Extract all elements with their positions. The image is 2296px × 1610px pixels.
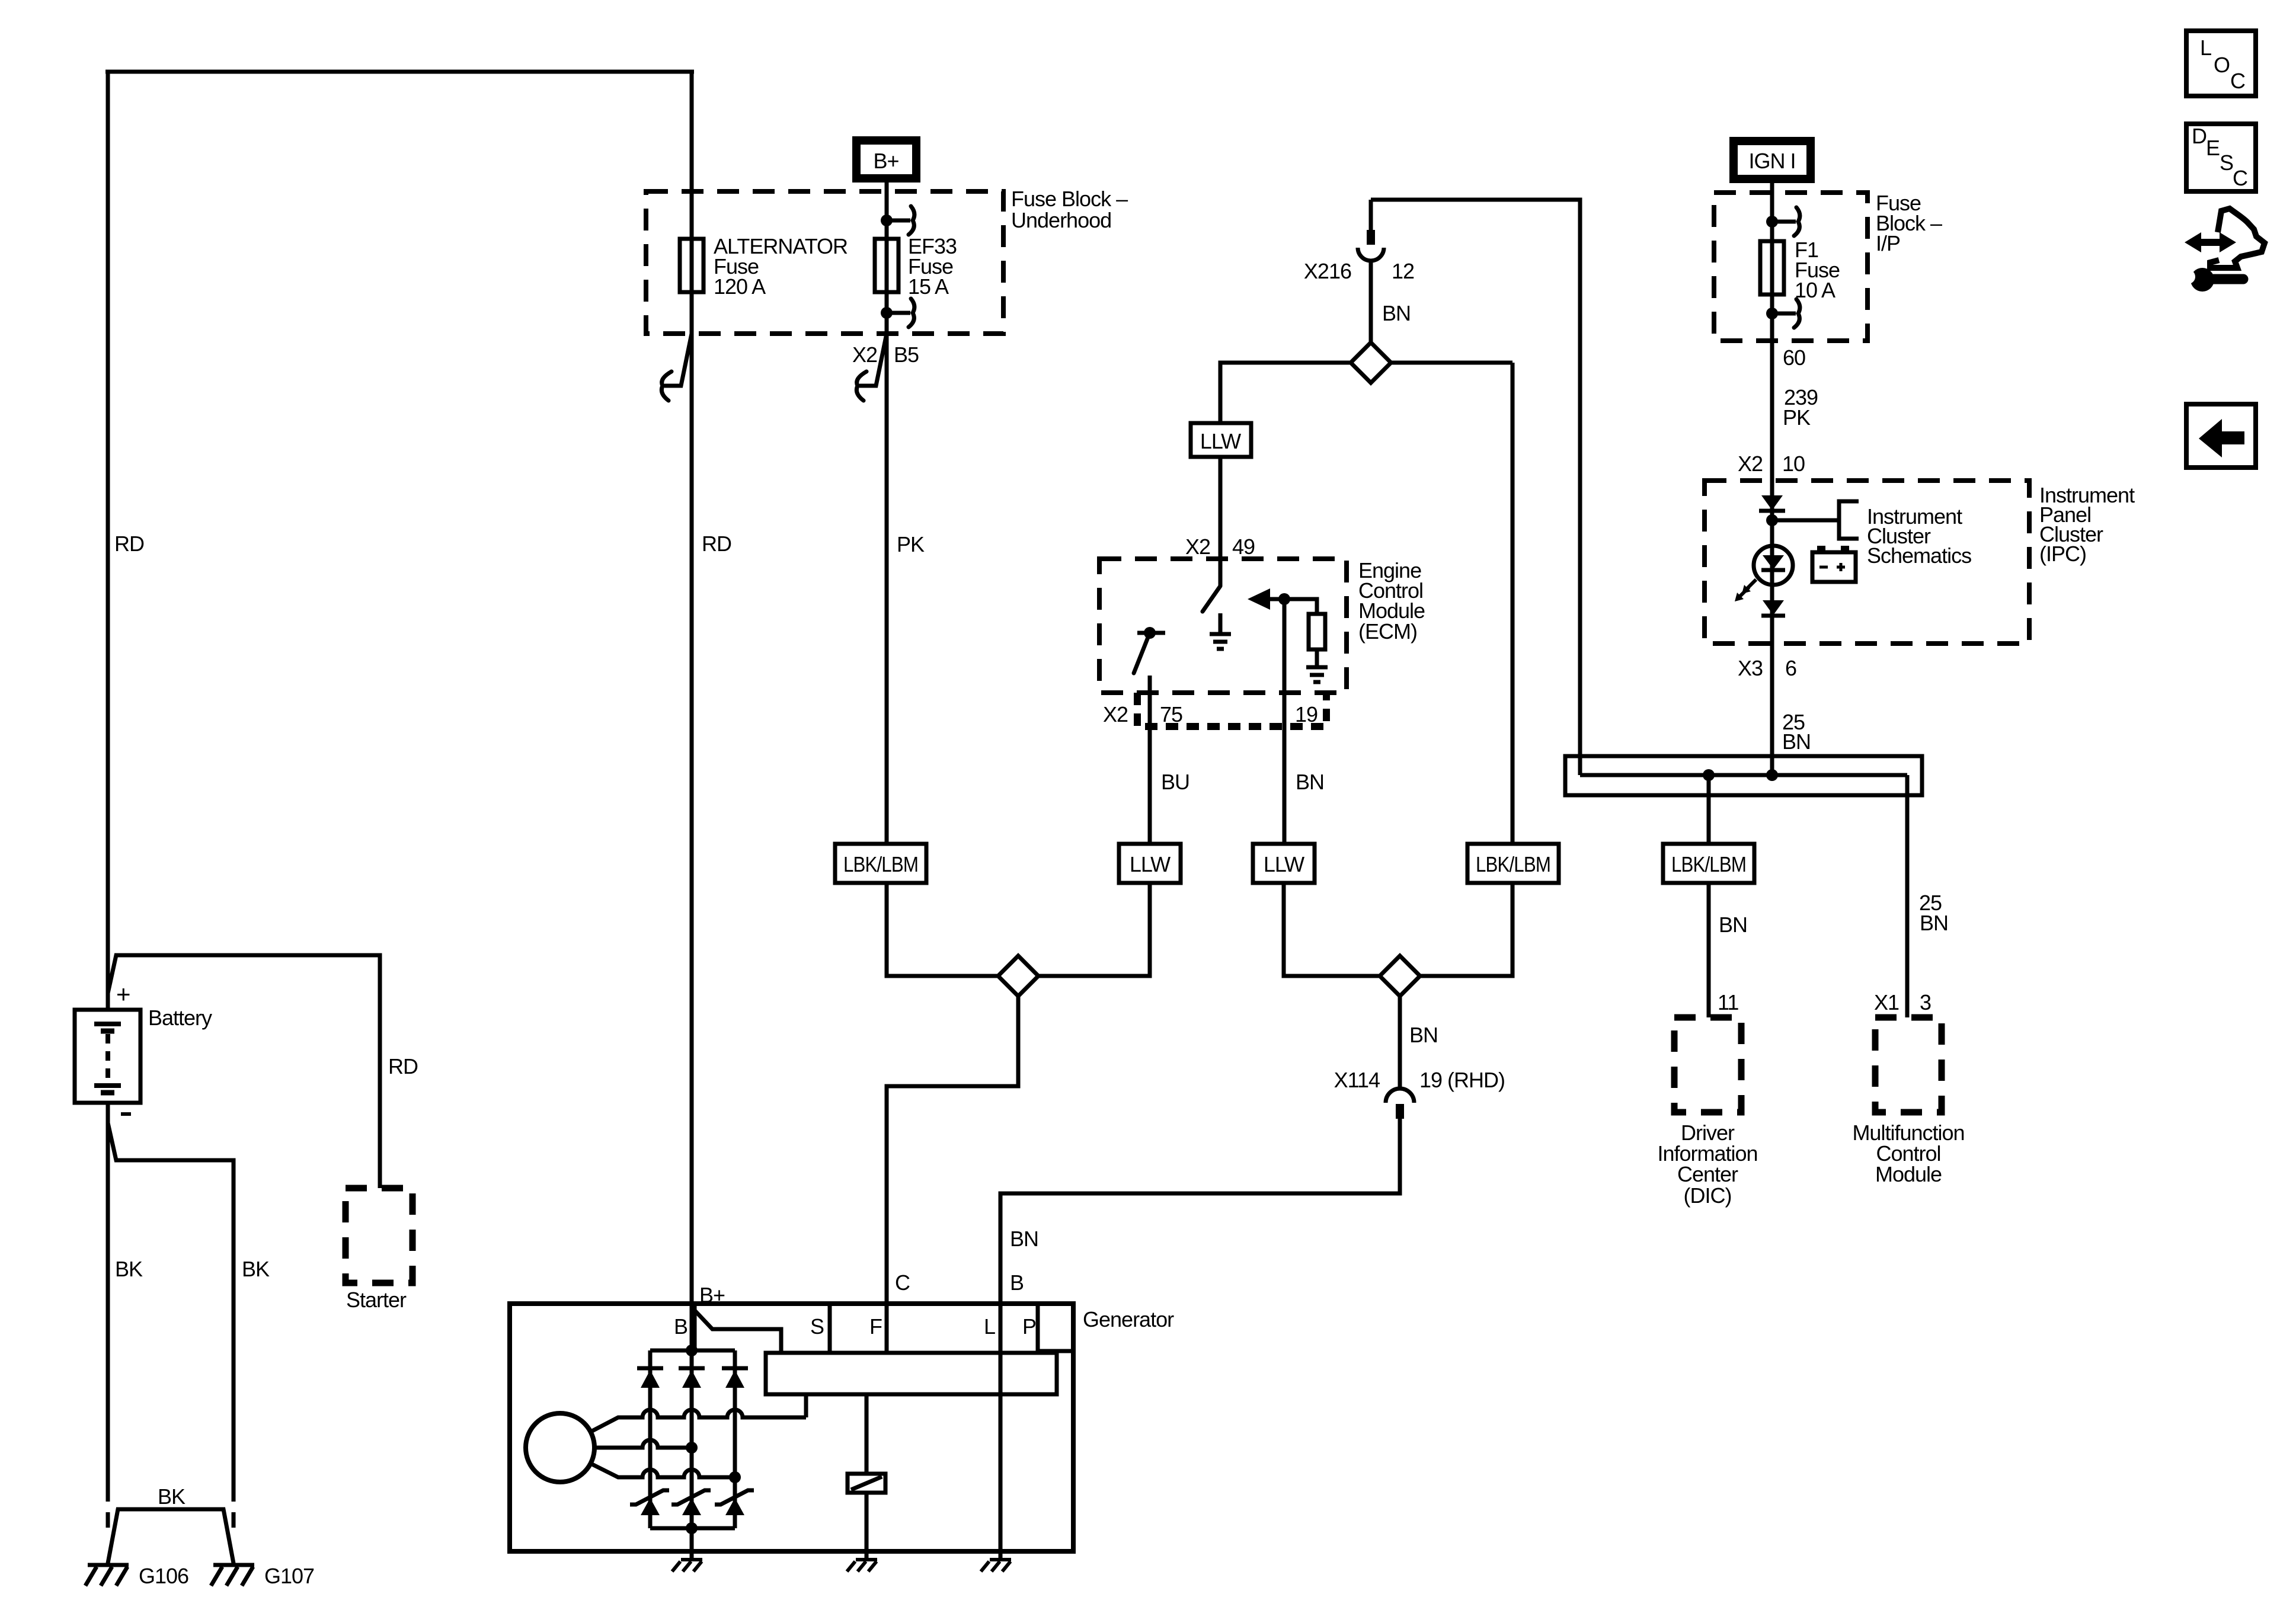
svg-text:LLW: LLW (1264, 852, 1304, 876)
icon back-arrow box (2186, 404, 2256, 468)
svg-text:Center: Center (1677, 1162, 1738, 1186)
svg-text:B+: B+ (699, 1283, 725, 1307)
wire ECM pin 19 down to LLW box (1283, 599, 1287, 844)
junction splice above EF33 fuse (881, 215, 893, 226)
zener diode Z1 (630, 1490, 669, 1505)
svg-text:Battery: Battery (148, 1006, 212, 1030)
svg-text:RD: RD (702, 532, 731, 556)
rectifier verticals (650, 1350, 735, 1528)
junction dot bus to DIC branch (1703, 769, 1715, 781)
field driver box with slash (848, 1474, 885, 1493)
svg-text:BK: BK (115, 1257, 143, 1281)
wire label box LBK/LBM (X216 branch) (1467, 844, 1559, 883)
svg-text:O: O (2214, 53, 2230, 77)
junction splice below EF33 fuse (881, 307, 893, 319)
svg-text:(DIC): (DIC) (1684, 1183, 1732, 1208)
terminal IGN I box (1734, 141, 1811, 179)
junction dot phase 3 to rectifier leg 3 (729, 1471, 741, 1483)
wire generator L terminal to ground (999, 1353, 1003, 1560)
indicator LED circle (charge lamp) (1754, 546, 1793, 585)
svg-text:BK: BK (242, 1257, 270, 1281)
ground (generator L circuit) (981, 1560, 1011, 1571)
fuse block I/P dashed box (1714, 193, 1868, 341)
wire tap to instrument cluster schematics (1772, 518, 1839, 523)
rectifier bottom bus (650, 1526, 735, 1531)
svg-text:B+: B+ (873, 149, 898, 173)
ground (generator regulator) (847, 1560, 877, 1571)
wire dashed continuation left BK (106, 1486, 110, 1532)
wire label box LLW (ECM 49 wire) (1191, 423, 1251, 457)
wire dashed continuation right BK (232, 1486, 236, 1532)
wire label box LLW (ECM 75 wire) (1119, 844, 1181, 883)
svg-text:C: C (2230, 69, 2245, 93)
svg-text:BN: BN (1920, 911, 1948, 935)
arrow into ECM (field control) (1248, 588, 1270, 610)
connector X114 female half (arc) (1386, 1089, 1414, 1103)
icon service (double arrow, part outline, wrench) (2181, 209, 2265, 292)
wire label box LBK/LBM (DIC branch) (1663, 844, 1754, 883)
svg-text:X3: X3 (1738, 656, 1763, 680)
switch blade (pin 49 ignition sense) (1203, 586, 1220, 612)
svg-text:15 A: 15 A (908, 274, 949, 299)
junction splice below F1 fuse (1766, 308, 1778, 319)
splice marker brace (below EF33) (887, 311, 910, 315)
wire IGN I through F1 fuse down to IPC and bus (1770, 179, 1774, 775)
wire generator B internal link to regulator (692, 1307, 781, 1353)
fuse block underhood dashed box (646, 191, 1003, 334)
resistor (ECM internal) (1309, 614, 1325, 649)
svg-text:3: 3 (1920, 990, 1931, 1014)
svg-text:49: 49 (1232, 534, 1255, 559)
icon LOC box (2186, 31, 2256, 96)
splice marker brace (above F1) (1772, 220, 1796, 224)
svg-text:Starter: Starter (346, 1288, 407, 1312)
zener diode Z2 (671, 1490, 711, 1505)
svg-text:(ECM): (ECM) (1358, 619, 1417, 644)
splice diamond S1 (998, 956, 1038, 996)
wire branch battery+ to starter (diagonal, horizontal, down) (108, 955, 380, 1188)
svg-text:BN: BN (1010, 1227, 1038, 1251)
wire X216 down to diamond S3 (1369, 261, 1373, 343)
wire BK jumper to grounds (trapezoid) (108, 1509, 234, 1563)
junction dot bus to IPC wire (1766, 769, 1778, 781)
svg-text:G107: G107 (264, 1564, 314, 1588)
svg-text:(IPC): (IPC) (2039, 542, 2086, 566)
splice pack internal bus (1580, 773, 1907, 777)
svg-text:60: 60 (1783, 345, 1805, 370)
switch blade (pin 75) (1134, 633, 1150, 673)
svg-text:BK: BK (158, 1484, 186, 1509)
starter dashed box (346, 1188, 412, 1283)
wire X114 to generator B terminal (1000, 1119, 1400, 1353)
battery plus plate lower (94, 1083, 121, 1088)
svg-text:LLW: LLW (1200, 429, 1241, 453)
wire stub from top loop down to X216 (1369, 200, 1373, 231)
battery minus plate lower (short thick) (101, 1090, 114, 1096)
junction dot rectifier bottom bus (686, 1522, 698, 1534)
rectifier diode D+2 (679, 1366, 705, 1371)
wire diamond S3 left arm to LLW box (1220, 363, 1351, 423)
generator terminal separators (695, 1304, 1073, 1353)
splice marker brace (above EF33) (887, 219, 910, 223)
svg-text:X2: X2 (1185, 534, 1210, 559)
svg-text:Underhood: Underhood (1011, 208, 1111, 232)
svg-text:BN: BN (1382, 301, 1411, 325)
svg-text:12: 12 (1392, 259, 1414, 283)
wire bus to LBK/LBM (DIC branch) (1707, 775, 1711, 844)
wire below diamond S2 to connector X114 (1398, 996, 1402, 1089)
terminal B+ box (856, 140, 916, 178)
svg-text:10: 10 (1782, 452, 1805, 476)
svg-text:6: 6 (1785, 656, 1796, 680)
wire top loop from X216 to bus bar (1371, 200, 1580, 775)
battery telltale icon (1812, 552, 1856, 582)
svg-text:Fuse Block –: Fuse Block – (1011, 187, 1128, 211)
svg-text:LBK/LBM: LBK/LBM (1476, 852, 1550, 876)
wire diamond S3 right arm to LBK/LBM drop (1391, 361, 1512, 365)
svg-text:G106: G106 (139, 1564, 188, 1588)
diode D2 (IPC output) (1763, 600, 1784, 615)
svg-text:P: P (1022, 1314, 1036, 1339)
junction dot rectifier top bus (686, 1345, 698, 1356)
svg-text:BN: BN (1719, 913, 1747, 937)
svg-text:PK: PK (897, 532, 925, 556)
svg-text:IGN I: IGN I (1748, 149, 1795, 173)
svg-text:B5: B5 (894, 343, 919, 367)
svg-text:I/P: I/P (1876, 231, 1900, 255)
svg-text:19: 19 (1295, 702, 1318, 726)
connector bracket (instrument cluster schematics) (1839, 501, 1859, 539)
ground (ECM internal, under switch) (1210, 613, 1231, 649)
svg-text:LLW: LLW (1130, 852, 1171, 876)
driver information center DIC dashed box (1674, 1017, 1741, 1112)
svg-text:10 A: 10 A (1795, 278, 1835, 302)
diode D1 (IPC input) (1761, 495, 1783, 510)
svg-text:X2: X2 (852, 343, 877, 367)
stator phase 2 line with hop (594, 1440, 692, 1448)
stator phase 3 line with hops (591, 1464, 735, 1477)
rectifier diode D+1 (637, 1366, 663, 1371)
svg-text:75: 75 (1160, 702, 1182, 726)
splice pack bus bar outline (1565, 756, 1922, 795)
ground (generator rectifier) (672, 1560, 702, 1571)
splice marker brace (below F1) (1772, 312, 1796, 316)
battery plus plate (94, 1022, 121, 1026)
wire branch battery- to second BK drop (108, 1123, 234, 1486)
ECM dashed box (1099, 559, 1347, 693)
wire PK from B+ terminal through EF33 fuse down to LBK/LBM (885, 178, 889, 844)
wire RD from top run down to generator B+ terminal (690, 72, 694, 1350)
junction dot on pin75 contact (1144, 627, 1156, 639)
connector X216 male pin (tick) (1367, 230, 1375, 245)
svg-text:120 A: 120 A (714, 274, 766, 299)
wire regulator to field driver box (865, 1394, 869, 1474)
svg-text:D: D (2192, 124, 2207, 148)
connector X2 pin B5 stub on EF33 wire at block exit (856, 334, 887, 401)
svg-text:E: E (2206, 136, 2220, 160)
junction splice above F1 fuse (1766, 216, 1778, 228)
connector X216 female half (arc) (1358, 248, 1384, 261)
zener diode Z3 (715, 1490, 754, 1505)
multifunction control module dashed box (1875, 1017, 1942, 1112)
wire regulator to stator phase 1 (804, 1394, 808, 1417)
wire from LBK/LBM down to splice diamond (887, 883, 998, 976)
svg-text:C: C (2233, 166, 2247, 190)
ground G107 symbol (211, 1565, 254, 1586)
svg-text:L: L (2200, 36, 2211, 60)
wire arrow to resistor (1270, 599, 1317, 614)
wire from LLW down to splice diamond S2 (1284, 883, 1380, 976)
svg-text:S: S (810, 1314, 824, 1339)
svg-text:11: 11 (1718, 990, 1738, 1014)
svg-text:RD: RD (114, 532, 144, 556)
svg-text:S: S (2220, 151, 2233, 175)
svg-text:X114: X114 (1334, 1068, 1380, 1092)
label - (battery negative) (121, 1112, 131, 1116)
splice diamond S2 (1380, 956, 1420, 996)
svg-text:RD: RD (388, 1054, 418, 1078)
svg-text:+: + (116, 980, 130, 1008)
generator outer box (510, 1304, 1073, 1551)
svg-text:F: F (869, 1314, 882, 1339)
wire LBK/LBM down to DIC (1707, 883, 1711, 1017)
ECM connector face box (dense dashed) (1137, 693, 1326, 726)
LED emission arrows (1739, 580, 1756, 597)
splice diamond S3 (1351, 343, 1391, 383)
ground (ECM internal, resistor) (1306, 667, 1328, 682)
svg-text:B: B (1010, 1270, 1024, 1295)
ground G106 symbol (85, 1565, 129, 1586)
fuse ALTERNATOR 120A body (680, 239, 703, 292)
instrument panel cluster IPC dashed box (1705, 481, 2029, 644)
voltage regulator bar (766, 1353, 1057, 1394)
svg-text:LBK/LBM: LBK/LBM (1671, 852, 1746, 876)
svg-text:X2: X2 (1103, 702, 1128, 726)
icon DESC box (2186, 124, 2256, 191)
battery internal dashed link (105, 1034, 110, 1081)
svg-text:BN: BN (1409, 1023, 1438, 1047)
wire LLW box down to ECM pin 49 (1219, 457, 1223, 586)
switch fixed contact (pin 75) (1137, 631, 1165, 635)
battery G1 box (75, 1010, 140, 1103)
wire field driver to ground (865, 1493, 869, 1560)
rectifier diode D+3 (722, 1366, 748, 1371)
battery minus plate (short thick) (101, 1029, 114, 1034)
LED diode triangle (1763, 555, 1784, 569)
svg-text:Generator: Generator (1083, 1307, 1174, 1331)
svg-text:PK: PK (1783, 405, 1811, 430)
wire ECM pin 75 down to LLW box (1148, 676, 1152, 844)
wire top horizontal RD run (105, 70, 694, 74)
fuse F1 10A body (1760, 241, 1784, 295)
junction dot to cluster schematics tap (1766, 514, 1778, 526)
svg-text:L: L (984, 1314, 995, 1339)
junction dot on arrow wire (1278, 593, 1290, 605)
junction dot phase 2 to rectifier leg 2 (686, 1442, 698, 1454)
wire resistor to ground (1315, 649, 1319, 667)
svg-text:BU: BU (1161, 770, 1189, 794)
svg-text:19 (RHD): 19 (RHD) (1419, 1068, 1505, 1092)
svg-text:X1: X1 (1874, 990, 1899, 1014)
wire RD battery positive to top-left corner (106, 72, 110, 1010)
stator rotor circle (526, 1413, 594, 1482)
svg-text:BN: BN (1296, 770, 1324, 794)
svg-text:B: B (674, 1314, 687, 1339)
rectifier top bus (650, 1349, 735, 1353)
wire rectifier to generator case ground (690, 1528, 694, 1560)
stator phase 1 line with hops (591, 1410, 806, 1432)
connector stub on alternator fuse wire at block exit (661, 334, 692, 401)
wire label box LLW (ECM 19 wire) (1253, 844, 1315, 883)
wire bus right end down to multifunction control module (1905, 775, 1910, 1017)
wire diamond S2 right arm up to LBK/LBM box (1420, 883, 1512, 976)
wire label box LBK/LBM (PK branch) (835, 844, 926, 883)
connector X114 male pin (tick) (1396, 1104, 1404, 1119)
wire below diamond S1 to generator C terminal (887, 996, 1018, 1353)
fuse EF33 15A body (875, 239, 898, 292)
svg-text:X216: X216 (1304, 259, 1351, 283)
svg-text:C: C (895, 1270, 910, 1295)
wire diamond S1 right arm to LLW wire (1038, 883, 1150, 976)
svg-text:BN: BN (1782, 729, 1811, 754)
svg-text:Module: Module (1875, 1162, 1942, 1186)
wire X216 split down to LBK/LBM box (1511, 363, 1515, 844)
svg-text:Schematics: Schematics (1867, 543, 1971, 568)
svg-text:LBK/LBM: LBK/LBM (843, 852, 918, 876)
wire battery negative down (106, 1103, 110, 1486)
svg-text:X2: X2 (1738, 452, 1763, 476)
